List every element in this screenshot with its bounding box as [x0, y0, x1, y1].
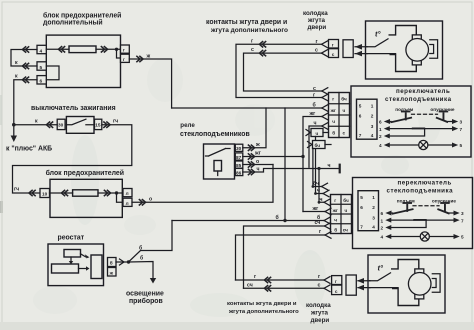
svg-text:двери: двери	[308, 24, 327, 31]
svg-text:87: 87	[236, 155, 242, 160]
svg-text:к: к	[35, 118, 38, 124]
svg-text:к: к	[15, 74, 18, 80]
svg-text:к "плюс" АКБ: к "плюс" АКБ	[6, 146, 52, 153]
svg-text:б: б	[139, 245, 142, 252]
svg-text:блок предохранителей: блок предохранителей	[46, 169, 124, 177]
svg-text:бч: бч	[341, 96, 347, 102]
svg-text:с: с	[313, 86, 316, 92]
svg-text:б: б	[140, 255, 143, 262]
svg-text:жг: жг	[254, 151, 262, 157]
svg-text:б: б	[110, 260, 113, 266]
svg-text:б: б	[313, 102, 316, 109]
svg-text:б: б	[334, 227, 337, 233]
svg-text:6: 6	[379, 120, 382, 125]
svg-text:выключатель зажигания: выключатель зажигания	[31, 105, 116, 112]
svg-text:3: 3	[460, 120, 463, 125]
svg-text:с: с	[332, 52, 335, 57]
svg-text:жг: жг	[309, 111, 317, 117]
svg-text:сч: сч	[247, 282, 253, 288]
svg-text:1: 1	[371, 103, 374, 108]
svg-text:ч: ч	[343, 108, 346, 113]
svg-text:5: 5	[359, 103, 362, 108]
svg-text:30: 30	[58, 123, 64, 128]
svg-text:ч: ч	[316, 131, 319, 136]
svg-text:с: с	[343, 131, 346, 136]
svg-text:ч: ч	[257, 166, 260, 172]
svg-text:3: 3	[371, 124, 374, 129]
svg-text:сч: сч	[315, 220, 321, 226]
svg-text:5: 5	[40, 65, 43, 70]
svg-text:бч: бч	[315, 142, 321, 148]
svg-text:6: 6	[359, 114, 362, 119]
svg-text:л: л	[126, 201, 129, 206]
svg-text:с: с	[318, 283, 321, 289]
svg-text:г: г	[335, 279, 337, 284]
svg-text:ч: ч	[328, 163, 331, 169]
svg-text:о: о	[149, 197, 152, 203]
svg-text:сч: сч	[343, 228, 348, 233]
svg-text:г: г	[334, 198, 336, 203]
svg-text:85: 85	[236, 163, 242, 168]
svg-text:реле: реле	[180, 122, 195, 129]
svg-text:ж: ж	[109, 271, 114, 276]
svg-text:7: 7	[460, 127, 463, 132]
svg-text:г: г	[332, 43, 334, 48]
svg-text:двери: двери	[311, 317, 330, 324]
svg-text:гч: гч	[14, 187, 19, 193]
svg-text:ч: ч	[345, 208, 348, 213]
svg-text:5: 5	[460, 143, 463, 148]
svg-text:блок предохранителей: блок предохранителей	[43, 12, 121, 20]
svg-text:стеклоподъемников: стеклоподъемников	[180, 131, 250, 138]
svg-text:б: б	[276, 214, 279, 221]
svg-text:15: 15	[95, 123, 101, 128]
svg-text:6: 6	[40, 79, 43, 84]
svg-text:ж: ж	[255, 142, 260, 148]
svg-text:г: г	[123, 48, 125, 53]
svg-text:гч: гч	[113, 119, 118, 125]
svg-text:бч: бч	[343, 197, 349, 203]
svg-text:с: с	[251, 47, 254, 53]
svg-text:ч: ч	[334, 218, 337, 223]
svg-text:контакты жгута двери и: контакты жгута двери и	[227, 301, 297, 307]
svg-text:жгута: жгута	[307, 17, 326, 24]
svg-text:4: 4	[379, 143, 382, 148]
svg-text:жгута дополнительного: жгута дополнительного	[210, 27, 288, 34]
svg-text:жгута: жгута	[310, 310, 329, 317]
svg-text:с: с	[335, 289, 338, 294]
svg-text:приборов: приборов	[129, 297, 163, 305]
svg-text:переключатель: переключатель	[396, 88, 450, 95]
svg-text:к: к	[15, 60, 18, 66]
svg-text:7: 7	[359, 133, 362, 138]
svg-text:жг: жг	[330, 108, 336, 113]
svg-text:10: 10	[42, 192, 48, 197]
svg-text:колодка: колодка	[303, 10, 328, 17]
svg-text:жг: жг	[332, 208, 338, 213]
svg-text:4: 4	[371, 133, 374, 138]
svg-text:2: 2	[371, 114, 374, 119]
svg-text:дополнительный: дополнительный	[43, 19, 103, 27]
svg-text:2: 2	[379, 134, 382, 139]
svg-text:освещение: освещение	[126, 291, 164, 298]
svg-text:ч: ч	[314, 121, 317, 127]
svg-text:30: 30	[236, 146, 242, 151]
svg-text:л: л	[126, 191, 129, 196]
svg-text:г: г	[332, 97, 334, 102]
svg-text:4: 4	[40, 48, 43, 53]
svg-text:б: б	[332, 130, 335, 136]
svg-text:г: г	[123, 57, 125, 62]
svg-text:жг: жг	[312, 206, 320, 212]
svg-text:реостат: реостат	[58, 235, 85, 242]
svg-text:о: о	[256, 159, 259, 165]
svg-text:колодка: колодка	[306, 302, 331, 309]
svg-text:стеклоподъемника: стеклоподъемника	[385, 96, 452, 103]
svg-text:ж: ж	[146, 54, 151, 60]
svg-text:контакты жгута двери и: контакты жгута двери и	[206, 19, 287, 26]
svg-text:1: 1	[379, 127, 382, 132]
svg-text:жгута дополнительного: жгута дополнительного	[228, 309, 299, 315]
svg-text:86: 86	[236, 170, 242, 175]
svg-text:ч: ч	[332, 119, 335, 124]
svg-text:с: с	[315, 48, 318, 54]
